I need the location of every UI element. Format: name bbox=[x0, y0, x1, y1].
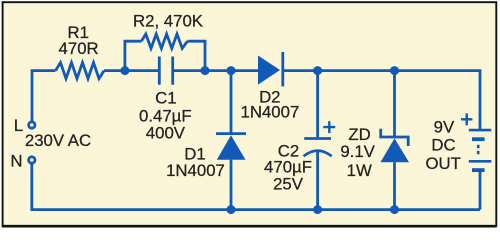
junction node R2 right stub bbox=[201, 66, 210, 75]
label D1 1N4007 bbox=[166, 144, 225, 180]
label C2 470uF 25V bbox=[264, 142, 312, 194]
svg-text:1W: 1W bbox=[347, 161, 372, 180]
label R2, 470K bbox=[133, 12, 203, 31]
terminal N bbox=[29, 157, 35, 163]
junction node after R1 bbox=[120, 66, 129, 75]
wire: C1 to D2 bbox=[174, 69, 258, 72]
svg-text:470R: 470R bbox=[59, 39, 99, 58]
label C1 0.47uF 400V bbox=[139, 89, 192, 143]
svg-text:0.47µF: 0.47µF bbox=[139, 106, 192, 125]
plus sign C2 bbox=[323, 121, 335, 133]
label 230V AC bbox=[25, 131, 91, 150]
svg-text:230V AC: 230V AC bbox=[25, 131, 91, 150]
resistor R2 parallel branch bbox=[125, 34, 205, 71]
svg-text:1N4007: 1N4007 bbox=[241, 103, 300, 122]
svg-text:R2, 470K: R2, 470K bbox=[133, 12, 203, 31]
resistor R1 bbox=[56, 63, 105, 79]
junction node ZD bottom bbox=[390, 205, 399, 214]
svg-text:25V: 25V bbox=[273, 175, 304, 194]
terminal L bbox=[29, 122, 35, 128]
wire: L column and top rail left bbox=[32, 71, 56, 121]
label L bbox=[14, 116, 23, 135]
label D2 1N4007 bbox=[241, 88, 300, 122]
battery 9V bbox=[469, 130, 492, 210]
diode D2 bbox=[258, 52, 283, 86]
svg-text:OUT: OUT bbox=[425, 154, 460, 173]
capacitor C1 bbox=[159, 57, 172, 85]
label R1 bbox=[59, 23, 99, 58]
junction node D1 top bbox=[227, 66, 236, 75]
svg-text:9V: 9V bbox=[434, 118, 455, 137]
label ZD 9.1V 1W bbox=[340, 125, 375, 180]
label 9V DC OUT bbox=[425, 118, 460, 173]
wire: D2 to right corner, down to battery bbox=[284, 71, 480, 130]
svg-text:400V: 400V bbox=[146, 124, 186, 143]
junction node D1 bottom bbox=[227, 205, 236, 214]
label N bbox=[10, 151, 22, 170]
capacitor C2 branch bbox=[304, 71, 332, 210]
svg-text:N: N bbox=[10, 151, 22, 170]
plus sign battery bbox=[461, 113, 472, 125]
svg-text:L: L bbox=[14, 116, 23, 135]
svg-text:1N4007: 1N4007 bbox=[166, 161, 225, 180]
junction node ZD top bbox=[390, 66, 399, 75]
svg-text:C1: C1 bbox=[155, 89, 176, 108]
svg-text:DC: DC bbox=[431, 136, 455, 155]
svg-text:9.1V: 9.1V bbox=[340, 142, 375, 161]
junction node C2 top bbox=[313, 66, 322, 75]
diode D1 branch bbox=[216, 71, 246, 210]
wire: R1 to C1 bbox=[104, 69, 158, 72]
zener diode ZD branch bbox=[379, 71, 409, 210]
wire: N column and bottom rail bbox=[32, 164, 480, 209]
junction node C2 bottom bbox=[313, 205, 322, 214]
